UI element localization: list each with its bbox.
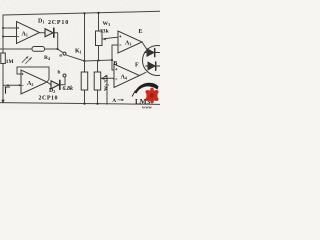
wire W3 top from border: [98, 13, 100, 31]
node dot bottom x84: [83, 103, 85, 105]
resistor 6.8k: [81, 72, 88, 90]
A1 input polarity marks: [17, 27, 19, 36]
W3 wiper arrow: [103, 37, 118, 40]
indicator diode top: [145, 49, 160, 57]
node dot A1 minus input at border: [2, 36, 4, 38]
op-amp A3: [118, 31, 142, 53]
wire F output to indicator: [140, 72, 147, 75]
op-amp A2 feedback wire: [17, 67, 49, 82]
wire A2 minus input: [3, 84, 21, 86]
node dot top border x84: [83, 12, 85, 14]
node dot top border x98: [97, 12, 99, 14]
diode D2: [51, 80, 60, 89]
node A arrow: [118, 99, 124, 101]
wire A1 minus input: [3, 36, 17, 38]
wire left border: [2, 15, 4, 101]
W2 wiper arrow: [101, 77, 114, 80]
wire E output to indicator: [142, 42, 147, 49]
wire A2 output: [47, 82, 51, 85]
A4 input polarity marks: [116, 68, 118, 79]
wire A3 minus input: [112, 45, 118, 60]
node dot pole K1: [83, 60, 85, 62]
wire W3 bottom to rail: [98, 46, 100, 61]
node dot rail at x112 B: [111, 59, 113, 61]
node dot A1 plus input at border: [2, 27, 4, 29]
wire 6.8k to bottom border: [84, 90, 86, 104]
node dot at A2 input: [19, 84, 21, 86]
wire probe input line: [0, 48, 32, 50]
wire W2 column: [97, 60, 99, 103]
indicator circle meter: [143, 46, 173, 76]
wire bottom border: [0, 103, 160, 105]
op-amp A1: [17, 22, 40, 44]
wire A1 plus input: [3, 27, 17, 29]
wire A2 plus input: [17, 73, 21, 75]
gamma probe symbol: [5, 87, 9, 93]
watermark logo swoosh: [132, 83, 159, 97]
switch K1 arm: [67, 55, 85, 61]
node dot wiper branch: [106, 77, 108, 79]
node dot input line: [7, 84, 9, 86]
op-amp A4: [114, 64, 140, 88]
wire rail B horizontal: [85, 60, 115, 70]
resistor R4: [32, 47, 45, 52]
A3 input polarity marks: [120, 36, 122, 45]
indicator diode bottom: [146, 62, 160, 70]
wire ground branch to bottom: [106, 78, 108, 104]
wire D2 cathode to contact b: [61, 77, 66, 85]
potentiometer W2: [94, 72, 101, 90]
op-amp A2: [21, 70, 47, 94]
contact a circle: [63, 52, 66, 55]
wire top border: [3, 11, 160, 15]
watermark rosette center: [150, 93, 154, 97]
wire resistor col x84: [84, 71, 86, 73]
node dot bottom x97: [96, 103, 98, 105]
potentiometer W3: [96, 31, 103, 46]
diode D1: [45, 28, 54, 37]
wire D1 cathode to node: [55, 33, 58, 49]
wire A1 output: [40, 32, 46, 34]
wire top rail vertical x84: [84, 13, 86, 72]
probe input arrowhead: [1, 100, 4, 104]
node dot rail at x98: [97, 59, 99, 61]
light arrows: [22, 57, 32, 64]
node dot bottom x107: [106, 103, 108, 105]
wire node to contact a: [58, 49, 63, 52]
wire R4 to node: [45, 48, 58, 50]
node junction D1-R4: [56, 48, 58, 50]
A2 input polarity marks: [22, 73, 24, 85]
resistor 1M on left border: [1, 53, 6, 64]
contact b circle: [63, 74, 66, 77]
watermark red rosette: [146, 88, 159, 104]
